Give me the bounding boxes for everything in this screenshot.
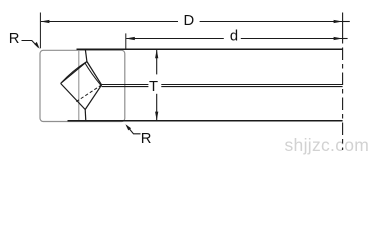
svg-text:T: T (149, 79, 158, 95)
centerline axis (dashed vertical at right) (342, 13, 344, 151)
dimension line T (vertical) (155, 49, 158, 120)
svg-text:D: D (183, 13, 194, 29)
ring split line bottom (from roller bottom vertex) (84, 110, 87, 121)
roller hidden edge (second line, top-left) (62, 62, 86, 82)
top face line of ring (black) (77, 48, 343, 50)
svg-text:d: d (230, 29, 238, 45)
dimension line D (40, 20, 349, 23)
extension line bore (d) (125, 33, 127, 48)
roller edge top-right (87, 62, 102, 85)
ring interface double line upper (102, 84, 343, 86)
svg-text:R: R (141, 131, 152, 147)
gray ring split vertical line (78, 51, 80, 122)
roller edge top-left (61, 62, 87, 84)
roller edge bottom-left (61, 83, 86, 109)
extension line left (outer diameter) (39, 13, 41, 49)
roller hidden edge (second line, top-right) (85, 63, 101, 85)
leader R bottom (125, 124, 140, 134)
ring split line top (to roller top vertex) (85, 49, 87, 62)
ring interface double line lower (102, 86, 343, 88)
bearing outer silhouette (gray rounded rect of ring block) (40, 50, 125, 121)
roller edge bottom-right (85, 85, 101, 110)
dimension line d (126, 37, 348, 40)
roller axis (dashed diagonal) (76, 85, 101, 102)
svg-text:R: R (9, 31, 20, 47)
leader R top-left (22, 41, 40, 49)
bottom face line of ring (black) (68, 120, 343, 122)
svg-text:shjjzc.com: shjjzc.com (285, 135, 370, 155)
